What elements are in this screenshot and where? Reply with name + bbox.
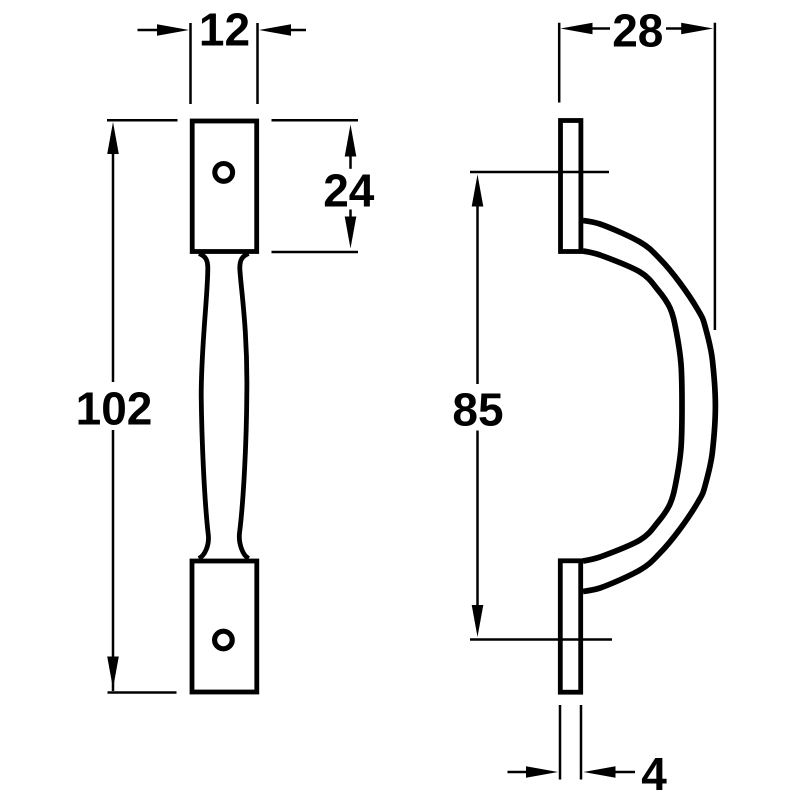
- svg-text:4: 4: [641, 748, 667, 800]
- svg-text:24: 24: [323, 164, 375, 216]
- svg-text:85: 85: [452, 383, 503, 435]
- svg-text:28: 28: [612, 4, 663, 56]
- svg-text:102: 102: [76, 383, 153, 435]
- svg-text:12: 12: [199, 4, 250, 56]
